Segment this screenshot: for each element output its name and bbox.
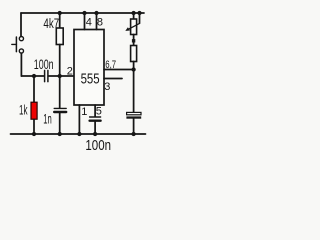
resistor R2 body bbox=[131, 46, 137, 62]
junction dot wiper node bbox=[132, 39, 135, 42]
junction dot pin8 at VCC bbox=[94, 11, 98, 15]
wire GND bottom rail bbox=[11, 133, 146, 135]
wire 4k7 bottom lead bbox=[59, 45, 61, 77]
junction dot 4k7 at VCC bbox=[58, 11, 62, 15]
capacitor C3 100n on pin5 bbox=[90, 117, 101, 121]
junction dot pin 6,7 node bbox=[131, 67, 135, 71]
pushbutton S1 bbox=[12, 37, 24, 54]
wire R2 to cap bbox=[133, 62, 135, 113]
junction dot pot at VCC bbox=[131, 11, 135, 15]
junction dot pin1 at GND bbox=[77, 132, 81, 136]
svg-text:3: 3 bbox=[104, 81, 110, 93]
wire 1n branch bbox=[59, 76, 61, 108]
svg-text:555: 555 bbox=[81, 71, 100, 88]
pot wiper arrow bbox=[128, 23, 139, 29]
wire pin 1 to ground bbox=[78, 105, 80, 134]
junction dot C4 at GND bbox=[131, 132, 135, 136]
svg-text:4k7: 4k7 bbox=[43, 16, 59, 31]
wire C3 to ground rail bbox=[94, 122, 96, 134]
wire 4k7 top lead bbox=[59, 13, 61, 28]
resistor R1 4k7 bbox=[56, 28, 63, 45]
capacitor C2 1n bbox=[54, 108, 66, 112]
svg-text:8: 8 bbox=[97, 17, 103, 29]
svg-text:4: 4 bbox=[86, 17, 92, 29]
wire pin 4 lead bbox=[84, 13, 86, 30]
svg-text:5: 5 bbox=[96, 106, 102, 118]
junction dot 1k at GND bbox=[32, 132, 36, 136]
wire wiper to VCC bbox=[139, 13, 141, 23]
wire pot top lead bbox=[133, 13, 135, 19]
junction dot pin4 at VCC bbox=[82, 11, 86, 15]
svg-text:100n: 100n bbox=[85, 137, 111, 153]
wire pin 5 lead bbox=[94, 105, 96, 116]
svg-text:1k: 1k bbox=[19, 103, 28, 118]
junction node B bbox=[58, 74, 62, 78]
wire pin 6,7 bbox=[104, 69, 134, 71]
svg-text:1n: 1n bbox=[43, 111, 52, 126]
capacitor C4 bottom plate bbox=[126, 116, 141, 118]
wire VCC top rail bbox=[21, 12, 144, 14]
junction dot 1n at GND bbox=[58, 132, 62, 136]
wire 1n to ground rail bbox=[59, 113, 61, 134]
wire C4 to ground rail bbox=[133, 119, 135, 134]
wire trigger row left bbox=[21, 75, 43, 77]
junction node A bbox=[32, 74, 36, 78]
wire S1 to trigger node bbox=[20, 53, 22, 76]
svg-text:1: 1 bbox=[81, 106, 87, 118]
wire 1k to ground rail bbox=[33, 119, 35, 134]
wire top-left drop to switch bbox=[20, 13, 22, 36]
resistor R3 1k bbox=[31, 102, 37, 119]
wire pin 8 lead bbox=[96, 13, 98, 30]
wire pin 3 output stub bbox=[104, 78, 122, 80]
wire trigger row right bbox=[49, 75, 74, 77]
svg-text:2: 2 bbox=[67, 66, 73, 78]
capacitor C4 100n right top plate bbox=[127, 112, 141, 114]
op-amp U1 555 body bbox=[74, 30, 104, 106]
potentiometer P1 body bbox=[131, 19, 137, 35]
junction dot wiper vertical at VCC bbox=[137, 11, 141, 15]
svg-text:6,7: 6,7 bbox=[105, 59, 116, 71]
wire pot to resistor bbox=[133, 35, 135, 46]
wire 1k branch bbox=[33, 76, 35, 102]
capacitor C1 100n series plates bbox=[45, 70, 48, 81]
junction dot C3 at GND bbox=[93, 132, 97, 136]
svg-text:100n: 100n bbox=[34, 57, 54, 72]
